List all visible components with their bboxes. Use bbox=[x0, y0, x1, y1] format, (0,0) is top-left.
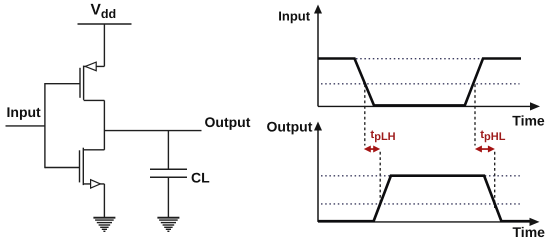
tpHL delay arrow bbox=[475, 146, 495, 153]
dotted VOH reference line (bottom graph) bbox=[321, 175, 520, 177]
wire PMOS source horizontal bbox=[84, 65, 105, 67]
wire output to capacitor bbox=[167, 131, 169, 170]
svg-text:Input: Input bbox=[278, 9, 310, 24]
ground GND1 bbox=[93, 218, 115, 232]
dotted 50% reference line (top graph) bbox=[321, 83, 520, 85]
svg-text:Time: Time bbox=[512, 113, 545, 129]
wire gate bus vertical bbox=[44, 83, 46, 168]
wire input bbox=[6, 125, 45, 127]
transistor M1 PMOS gate bar bbox=[79, 68, 81, 98]
dashed marker at input rising 50% crossing bbox=[474, 84, 476, 145]
capacitor CL bottom plate bbox=[150, 176, 187, 178]
transistor M2 NMOS source arrow bbox=[91, 180, 101, 188]
transistor M2 NMOS gate bar bbox=[79, 150, 81, 182]
wire NMOS source to ground bbox=[103, 184, 105, 217]
wire NMOS source horizontal bbox=[83, 183, 104, 185]
input waveform trace bbox=[318, 59, 521, 106]
wire PMOS drain horizontal bbox=[84, 99, 105, 101]
svg-text:tpLH: tpLH bbox=[370, 129, 395, 143]
output waveform trace bbox=[318, 176, 530, 222]
dotted VOH reference line (top graph) bbox=[356, 58, 520, 60]
svg-text:Vdd: Vdd bbox=[91, 2, 117, 21]
ground GND2 bbox=[157, 218, 179, 232]
capacitor CL top plate bbox=[150, 168, 187, 170]
wire Vdd to PMOS source bbox=[103, 24, 105, 66]
svg-text:Output: Output bbox=[267, 119, 313, 135]
svg-text:Input: Input bbox=[7, 104, 42, 120]
top graph x-axis bbox=[318, 102, 540, 110]
dotted 50% reference line (bottom graph) bbox=[321, 203, 520, 205]
wire NMOS drain horizontal bbox=[83, 149, 104, 151]
top graph y-axis bbox=[314, 5, 322, 107]
wire PMOS gate lead bbox=[45, 83, 80, 85]
transistor M1 PMOS channel bar bbox=[83, 66, 85, 100]
svg-text:tpHL: tpHL bbox=[480, 129, 506, 143]
svg-text:Time: Time bbox=[513, 224, 546, 240]
bottom graph x-axis bbox=[318, 218, 540, 226]
wire output bbox=[104, 130, 201, 132]
transistor M2 NMOS channel bar bbox=[82, 148, 84, 185]
svg-text:CL: CL bbox=[191, 169, 210, 185]
tpLH delay arrow bbox=[364, 146, 380, 153]
dashed marker at output falling 50% crossing bbox=[494, 152, 496, 208]
transistor M1 PMOS source arrow bbox=[85, 62, 96, 71]
dashed marker at input falling 50% crossing bbox=[364, 84, 366, 145]
wire NMOS gate lead bbox=[45, 167, 80, 169]
bottom graph y-axis bbox=[314, 122, 322, 222]
svg-text:Output: Output bbox=[205, 114, 251, 130]
Vdd rail bbox=[78, 23, 132, 25]
dashed marker at output rising 50% crossing bbox=[379, 152, 381, 206]
wire drain bus vertical bbox=[103, 100, 105, 149]
wire capacitor to ground bbox=[167, 177, 169, 217]
